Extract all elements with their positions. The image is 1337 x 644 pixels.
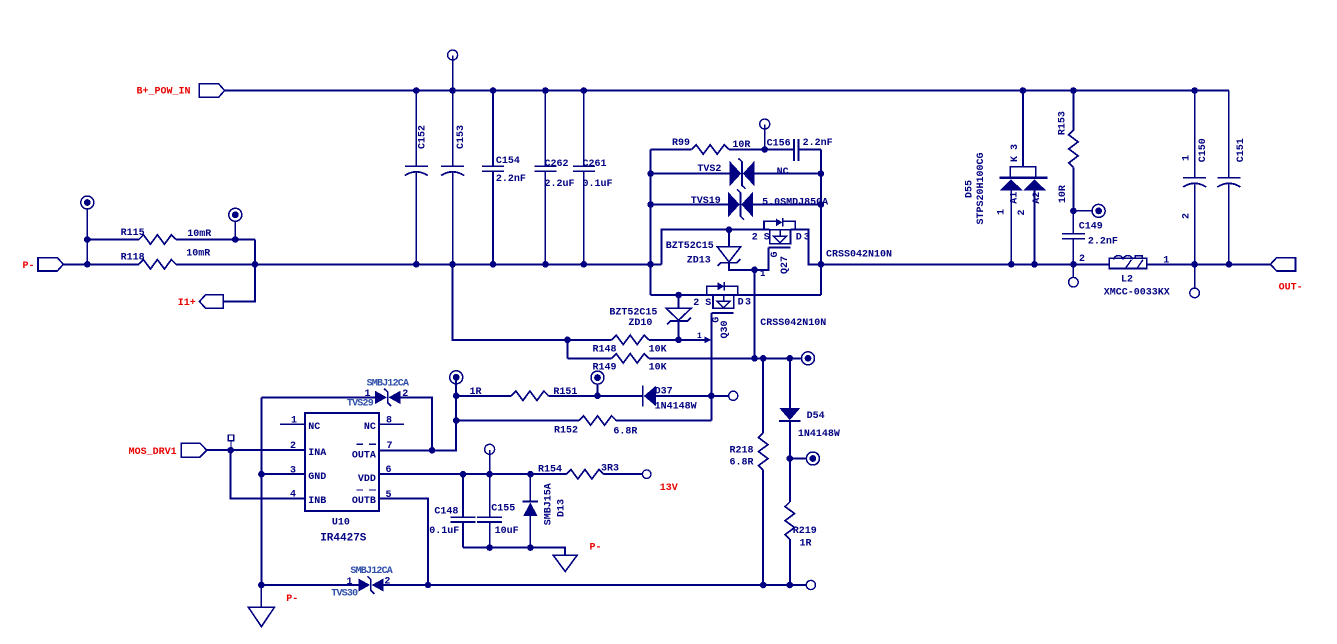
svg-text:C155: C155 <box>491 503 515 514</box>
svg-text:1N4148W: 1N4148W <box>798 429 840 440</box>
resistor R153 10R <box>1072 91 1074 211</box>
svg-text:2 S: 2 S <box>752 232 770 243</box>
svg-text:1: 1 <box>997 209 1008 215</box>
svg-text:C262: C262 <box>545 159 569 170</box>
test point above R151 right <box>591 371 604 384</box>
ground rail vertical <box>260 397 262 585</box>
wire INA to INB link <box>231 450 305 498</box>
resistor R99 10R <box>651 149 794 151</box>
ground symbol near D13 <box>553 555 577 571</box>
gate arrow of Q30 pin 1 <box>704 336 711 343</box>
svg-text:OUTB: OUTB <box>352 496 376 507</box>
svg-text:L2: L2 <box>1121 275 1133 286</box>
svg-text:VDD: VDD <box>358 474 376 485</box>
ic U10 IR4427S box <box>305 413 379 511</box>
capacitor C155 10uF <box>489 474 491 547</box>
svg-text:2: 2 <box>1181 213 1192 219</box>
svg-text:10K: 10K <box>649 345 667 356</box>
svg-text:XMCC-0033KX: XMCC-0033KX <box>1104 287 1170 298</box>
svg-text:A1: A1 <box>1010 192 1021 204</box>
svg-text:D13: D13 <box>557 499 568 517</box>
diode D55 STPS20H100CG dual schottky <box>1022 91 1024 167</box>
zener diode D13 SMBJ15A <box>529 474 531 547</box>
svg-text:1: 1 <box>760 269 766 279</box>
wire C153 column down to R148/R149 feed <box>453 264 568 340</box>
wire GND pin 3 to ground rail <box>261 473 305 475</box>
wire OUTB pin5 down to bottom rail <box>379 499 428 586</box>
junction and test point below D54 <box>787 455 794 462</box>
svg-text:IR4427S: IR4427S <box>320 532 367 544</box>
no-ERC square marker <box>228 435 234 441</box>
terminal circle below C150 <box>1194 264 1196 288</box>
svg-text:2: 2 <box>402 389 408 400</box>
svg-text:1R: 1R <box>800 538 812 549</box>
svg-text:BZT52C15: BZT52C15 <box>666 241 714 252</box>
left rail of TVS stack <box>650 150 652 296</box>
capacitor C261 0.1uF <box>583 91 585 265</box>
svg-text:2 S: 2 S <box>693 298 711 309</box>
svg-text:2: 2 <box>1017 209 1028 215</box>
svg-text:TVS19: TVS19 <box>691 196 721 207</box>
svg-text:C148: C148 <box>434 507 458 518</box>
svg-text:TVS2: TVS2 <box>697 164 721 175</box>
svg-text:1: 1 <box>291 415 297 426</box>
resistor R115 10mR <box>87 239 255 241</box>
svg-text:R115: R115 <box>121 228 145 239</box>
svg-text:GND: GND <box>308 472 326 483</box>
svg-text:1: 1 <box>697 332 702 341</box>
svg-text:2.2uF: 2.2uF <box>545 179 575 190</box>
wire R115 right to bus and I1+ <box>223 240 255 302</box>
capacitor C151 <box>1228 91 1230 265</box>
svg-text:R118: R118 <box>121 252 145 263</box>
svg-text:2.2nF: 2.2nF <box>1088 237 1118 248</box>
net P- main bottom bus left part <box>63 263 661 265</box>
resistor R152 6.8R <box>456 420 711 422</box>
main output bus junction <box>818 261 825 268</box>
svg-text:TVS30: TVS30 <box>331 589 358 600</box>
svg-text:C151: C151 <box>1236 138 1247 162</box>
capacitor C152 <box>415 91 417 265</box>
svg-text:10R: 10R <box>732 140 750 151</box>
right rail of TVS stack <box>820 150 822 296</box>
junction dots VDD row <box>460 471 467 478</box>
wire R149 feed <box>566 340 568 359</box>
svg-text:D54: D54 <box>807 411 825 422</box>
svg-text:P-: P- <box>23 261 35 272</box>
svg-text:P-: P- <box>286 594 298 605</box>
wire Q30 drain to output bus <box>734 294 821 296</box>
svg-text:1: 1 <box>1181 155 1192 161</box>
test point TP right of R115 <box>229 208 242 221</box>
svg-text:R218: R218 <box>730 445 754 456</box>
svg-text:SMBJ12CA: SMBJ12CA <box>350 566 392 577</box>
wire bus jog up to Q27 source rail <box>662 230 770 265</box>
svg-text:C153: C153 <box>456 125 467 149</box>
TVS29 SMBJ12CA bidirectional TVS <box>261 397 432 450</box>
svg-text:SMBJ15A: SMBJ15A <box>544 483 555 525</box>
svg-text:STPS20H100CG: STPS20H100CG <box>976 152 987 224</box>
svg-text:2: 2 <box>1079 254 1085 265</box>
svg-text:10K: 10K <box>649 363 667 374</box>
pin 1 NC stub <box>280 423 305 425</box>
junctions OUTA riser <box>453 393 460 400</box>
svg-text:D: D <box>796 232 802 243</box>
svg-text:CRSS042N10N: CRSS042N10N <box>760 318 826 329</box>
zener diode ZD13 BZT52C15 <box>729 230 769 270</box>
pin 8 NC stub <box>379 423 404 425</box>
test point right of R153 <box>1070 208 1077 215</box>
svg-text:0.1uF: 0.1uF <box>429 526 459 537</box>
svg-text:3: 3 <box>804 232 810 243</box>
inductor L2 XMCC-0033KX <box>1109 258 1147 268</box>
capacitor C262 2.2uF <box>544 91 546 265</box>
svg-text:3: 3 <box>745 298 751 309</box>
svg-text:NC: NC <box>364 422 376 433</box>
svg-text:C261: C261 <box>583 159 607 170</box>
svg-text:D37: D37 <box>655 386 673 397</box>
svg-text:NC: NC <box>777 167 789 178</box>
transistor Q27 CRSS042N10N mosfet <box>764 221 795 229</box>
wire VDD pin6 row <box>379 473 642 475</box>
svg-text:C152: C152 <box>418 125 429 149</box>
svg-text:Q27: Q27 <box>780 256 791 274</box>
junctions on bottom bus under caps <box>413 261 420 268</box>
svg-text:10R: 10R <box>1058 185 1069 203</box>
svg-text:INB: INB <box>308 496 326 507</box>
wire cap bottoms to local ground <box>463 548 565 556</box>
svg-text:C149: C149 <box>1079 222 1103 233</box>
svg-text:D: D <box>738 298 744 309</box>
svg-text:A2: A2 <box>1032 192 1043 204</box>
svg-text:8: 8 <box>386 415 392 426</box>
diode D37 1N4148W <box>642 386 644 407</box>
svg-text:R99: R99 <box>672 138 690 149</box>
capacitor C156 2.2nF <box>794 139 798 161</box>
terminal circle below C149 <box>1072 264 1074 277</box>
svg-text:I1+: I1+ <box>178 298 196 309</box>
terminal circle right of R154 <box>642 470 651 479</box>
svg-text:2.2nF: 2.2nF <box>496 174 526 185</box>
svg-text:ZD13: ZD13 <box>687 255 711 266</box>
svg-text:OUTA: OUTA <box>352 451 376 462</box>
terminal circle bottom rail right end <box>806 580 815 589</box>
ground symbol P- bottom left <box>248 585 274 627</box>
transistor Q30 CRSS042N10N mosfet <box>707 286 738 295</box>
junction dots R148/R149 rows <box>564 337 571 344</box>
terminal circle above C156 <box>760 119 770 129</box>
svg-text:1: 1 <box>1163 256 1169 267</box>
test point right of R149 <box>802 352 815 365</box>
svg-text:6.8R: 6.8R <box>730 457 754 468</box>
svg-text:TVS29: TVS29 <box>347 399 374 410</box>
svg-text:U10: U10 <box>332 517 350 528</box>
svg-text:10mR: 10mR <box>186 248 210 259</box>
svg-text:13V: 13V <box>660 483 678 494</box>
port OUT- connector <box>1270 258 1295 271</box>
port I1+ connector <box>200 295 224 308</box>
wire Q30 gate down to R152 <box>710 313 712 421</box>
svg-text:INA: INA <box>308 448 326 459</box>
capacitor C150 <box>1194 91 1196 265</box>
wire Q30 source rail <box>651 294 713 296</box>
svg-text:ZD10: ZD10 <box>628 318 652 329</box>
svg-text:R152: R152 <box>554 426 578 437</box>
svg-text:2.2nF: 2.2nF <box>803 138 833 149</box>
svg-text:SMBJ12CA: SMBJ12CA <box>367 378 409 389</box>
svg-text:D55: D55 <box>965 180 976 198</box>
svg-text:2: 2 <box>384 577 390 588</box>
svg-text:CRSS042N10N: CRSS042N10N <box>826 249 892 260</box>
svg-text:C150: C150 <box>1198 138 1209 162</box>
svg-text:NC: NC <box>308 422 320 433</box>
resistor R149 10K <box>567 357 801 359</box>
capacitor C148 0.1uF <box>462 474 464 547</box>
port MOS_DRV1 connector <box>181 443 207 457</box>
svg-text:10mR: 10mR <box>187 229 211 240</box>
capacitor C154 2.2nF <box>492 91 494 265</box>
terminal circle above VDD row <box>485 444 495 454</box>
svg-text:3R3: 3R3 <box>601 463 619 474</box>
svg-text:1N4148W: 1N4148W <box>655 402 697 413</box>
resistor R154 3R3 <box>566 470 603 479</box>
svg-text:10uF: 10uF <box>495 526 519 537</box>
svg-text:R153: R153 <box>1058 111 1069 135</box>
test point TP left <box>81 196 94 209</box>
svg-text:Q30: Q30 <box>720 320 731 338</box>
net main bus to OUT- right part <box>809 263 1271 265</box>
wire MOS_DRV1 to INA pin 2 <box>207 449 305 451</box>
junction dots left area <box>84 236 91 243</box>
resistor R218 6.8R <box>762 358 764 585</box>
svg-text:C154: C154 <box>496 156 520 167</box>
svg-text:OUT-: OUT- <box>1279 282 1303 293</box>
wire Q27 gate to R149 <box>754 270 756 359</box>
junction dots TVS rails <box>647 170 654 177</box>
resistor R118 10mR <box>139 260 176 269</box>
resistor R219 1R <box>785 502 794 539</box>
svg-text:1: 1 <box>347 577 353 588</box>
zener diode ZD10 BZT52C15 <box>678 295 680 340</box>
terminal circle above C153 <box>448 50 458 60</box>
svg-text:6.8R: 6.8R <box>613 426 637 437</box>
wire OUTA pin7 row <box>379 377 456 450</box>
svg-text:B+_POW_IN: B+_POW_IN <box>137 87 191 98</box>
svg-text:P-: P- <box>590 542 602 553</box>
net B+_POW_IN top power bus <box>224 90 1229 92</box>
svg-text:R219: R219 <box>793 526 817 537</box>
svg-text:R151: R151 <box>553 387 577 398</box>
resistor R151 1R <box>456 395 642 397</box>
TVS2 bidirectional TVS diode NC <box>651 173 821 175</box>
svg-text:0.1uF: 0.1uF <box>583 179 613 190</box>
junctions on B+ bus <box>413 87 420 94</box>
svg-text:R154: R154 <box>538 464 562 475</box>
svg-text:1R: 1R <box>470 387 482 398</box>
svg-text:K 3: K 3 <box>1010 144 1021 162</box>
svg-text:MOS_DRV1: MOS_DRV1 <box>129 447 177 458</box>
test point above OUTA riser <box>450 371 463 384</box>
svg-text:C156: C156 <box>767 138 791 149</box>
terminal circle right of D37 <box>729 391 738 400</box>
capacitor C149 2.2nF <box>1072 211 1074 264</box>
svg-text:R148: R148 <box>593 345 617 356</box>
diode D54 1N4148W <box>789 358 791 408</box>
port B+_POW_IN connector <box>199 84 224 98</box>
capacitor C153 <box>452 91 454 265</box>
resistor R148 10K <box>567 339 704 341</box>
TVS30 SMBJ12CA bidirectional TVS <box>358 578 370 591</box>
port P- connector left <box>38 258 63 271</box>
TVS19 5.0SMDJ850A <box>651 204 821 206</box>
net P- bottom rail <box>261 584 806 586</box>
